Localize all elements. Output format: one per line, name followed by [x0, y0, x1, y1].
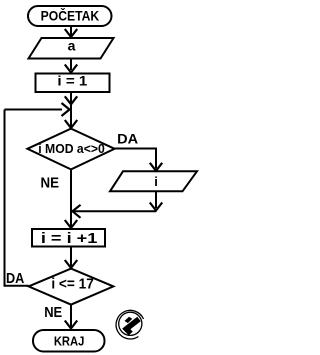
logo icon: outer open arc	[116, 310, 143, 339]
svg-text:i = 1: i = 1	[57, 73, 88, 88]
terminator KRAJ	[33, 330, 105, 352]
arrowhead into rect i = i + 1	[65, 220, 77, 228]
arrowhead down at junction	[150, 203, 162, 211]
svg-text:POČETAK: POČETAK	[41, 8, 100, 23]
parallelogram a	[29, 38, 114, 59]
wire loopback horizontal top	[5, 109, 63, 111]
decision diamond i MOD a<>0	[27, 129, 114, 170]
svg-text:i: i	[154, 174, 158, 189]
arrowhead into parallelogram i	[150, 163, 162, 171]
wire	[70, 92, 72, 128]
svg-text:i MOD a<>0: i MOD a<>0	[38, 142, 105, 156]
svg-text:DA: DA	[6, 270, 24, 287]
wire DA left loopback	[5, 110, 29, 286]
decision diamond i <= 17	[29, 269, 114, 305]
wire	[70, 27, 72, 35]
arrowhead	[65, 65, 77, 73]
svg-text:NE: NE	[44, 304, 62, 321]
arrowhead left into main line	[73, 205, 81, 218]
process rect i = 1	[36, 74, 110, 93]
wire	[70, 59, 72, 70]
arrowhead into KRAJ	[65, 321, 77, 329]
parallelogram i (output)	[110, 171, 197, 191]
wire DA right	[115, 149, 156, 169]
arrowhead	[65, 96, 77, 104]
logo icon: inner circle	[119, 312, 142, 335]
svg-text:a: a	[68, 38, 76, 54]
wire down from diamond 2	[70, 305, 72, 327]
wire from output down	[155, 192, 157, 208]
arrowhead into diamond 1	[65, 120, 77, 128]
svg-text:NE: NE	[41, 174, 60, 191]
process rect i = i + 1	[32, 229, 105, 247]
wire junction horizontal to main line	[74, 210, 156, 212]
svg-text:KRAJ: KRAJ	[54, 333, 85, 348]
svg-text:DA: DA	[117, 131, 138, 147]
terminator POCETAK	[28, 6, 112, 26]
arrowhead into diamond 2	[65, 260, 77, 268]
logo icon: black chevron glyph	[126, 319, 139, 334]
svg-text:i <= 17: i <= 17	[51, 275, 94, 292]
arrowhead	[65, 29, 77, 37]
wire down from rect2	[70, 247, 72, 267]
logo icon: small rhombus	[125, 317, 133, 323]
wire main down from diamond 1	[70, 169, 72, 226]
svg-text:i = i +1: i = i +1	[41, 230, 98, 247]
loopback arrowhead into junction	[62, 103, 70, 116]
